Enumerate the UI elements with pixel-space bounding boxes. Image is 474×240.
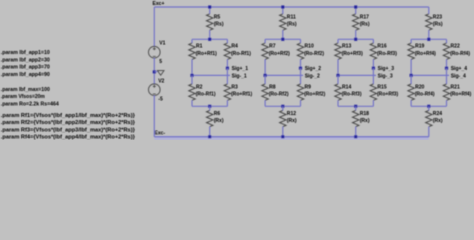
wire R15 to bottom bar	[372, 100, 374, 106]
resistor R2 (Ro-Rf1)	[189, 84, 195, 100]
wire left mid node to R2	[191, 75, 193, 84]
wire top bar to R16	[372, 39, 374, 43]
wire bottom bar to R18	[355, 106, 357, 110]
wire Exc- bottom rail	[154, 136, 429, 140]
wire left mid node to R20	[410, 75, 412, 84]
svg-text:(Ro-Rf4): (Ro-Rf4)	[450, 51, 470, 57]
svg-text:.param Ro=2.2k Rs=464: .param Ro=2.2k Rs=464	[1, 102, 59, 108]
wire right mid node to R21	[446, 68, 448, 84]
wire V2 down to Exc- rail	[153, 96, 155, 137]
wire right mid node to R3	[226, 68, 228, 84]
wire R16 to right mid node	[372, 59, 374, 68]
svg-text:Sig-_3: Sig-_3	[378, 74, 393, 80]
wire R20 to bottom bar	[410, 100, 412, 106]
wire R11 to bridge top node	[282, 30, 284, 39]
wire R23 to bridge top node	[428, 30, 430, 39]
svg-text:(Rx): (Rx)	[433, 118, 443, 124]
wire R14 to bottom bar	[337, 100, 339, 106]
svg-text:(Rs): (Rs)	[360, 22, 370, 28]
svg-text:.param lbf_app3=70: .param lbf_app3=70	[1, 65, 50, 71]
resistor R7 (Ro+Rf2)	[262, 43, 268, 59]
wire Exc+ rail down to V1	[153, 7, 155, 46]
svg-text:(Ro-Rf3): (Ro-Rf3)	[342, 92, 362, 98]
resistor R19 (Ro+Rf4)	[408, 43, 414, 59]
svg-text:(Ro-Rf3): (Ro-Rf3)	[377, 51, 397, 57]
node bridge top junction	[281, 38, 284, 41]
wire top bar to R22	[446, 39, 448, 43]
resistor R16 (Ro-Rf3)	[370, 43, 376, 59]
wire right mid node to R9	[300, 68, 302, 84]
svg-text:(Rx): (Rx)	[287, 118, 297, 124]
svg-text:(Ro+Rf2): (Ro+Rf2)	[304, 92, 325, 98]
svg-text:(Ro-Rf1): (Ro-Rf1)	[196, 92, 216, 98]
wire R2 to bottom bar	[191, 100, 193, 106]
node left mid junction	[264, 74, 267, 77]
svg-text:(Ro-Rf4): (Ro-Rf4)	[415, 92, 435, 98]
wire bridge bottom bar	[192, 105, 227, 107]
svg-text:R6: R6	[214, 111, 221, 117]
svg-text:5: 5	[159, 59, 162, 65]
svg-text:R15: R15	[377, 84, 386, 90]
svg-text:Sig-_1: Sig-_1	[232, 74, 247, 80]
node junction V1/V2 midpoint	[153, 70, 156, 73]
wire R9 to bottom bar	[300, 100, 302, 106]
svg-text:.param Rf1={Vfsos*(lbf_app1/lb: .param Rf1={Vfsos*(lbf_app1/lbf_max)*(Ro…	[1, 113, 135, 119]
node bridge top junction	[427, 38, 430, 41]
svg-text:Sig+_2: Sig+_2	[305, 66, 322, 72]
node Exc+ rail junction	[354, 5, 357, 8]
svg-text:Exc-: Exc-	[155, 131, 166, 137]
svg-text:R20: R20	[415, 84, 424, 90]
node Exc+ rail junction	[208, 5, 211, 8]
wire R7 to left mid node	[264, 59, 266, 75]
svg-text:(Rs): (Rs)	[214, 22, 224, 28]
resistor R23 (Rs)	[426, 14, 432, 30]
svg-text:R24: R24	[433, 111, 442, 117]
svg-text:(Rs): (Rs)	[287, 22, 297, 28]
node bridge top junction	[208, 38, 211, 41]
wire top bar to R19	[410, 39, 412, 43]
wire R19 to left mid node	[410, 59, 412, 75]
resistor R17 (Rs)	[353, 14, 359, 30]
wire R12 to Exc- rail	[282, 127, 284, 137]
node Sig+_1 junction	[226, 67, 229, 70]
wire R3 to bottom bar	[226, 100, 228, 106]
svg-text:.param lbf_max=100: .param lbf_max=100	[1, 87, 50, 93]
svg-text:R4: R4	[231, 44, 238, 50]
wire bridge bottom bar	[265, 105, 300, 107]
wire bridge top bar	[411, 38, 446, 40]
svg-text:Sig+_1: Sig+_1	[232, 66, 249, 72]
svg-text:.param Rf3={Vfsos*(lbf_app3/lb: .param Rf3={Vfsos*(lbf_app3/lbf_max)*(Ro…	[1, 127, 135, 133]
svg-text:(Ro+Rf1): (Ro+Rf1)	[231, 92, 252, 98]
svg-text:(Ro-Rf2): (Ro-Rf2)	[304, 51, 324, 57]
wire Exc+ rail to R11	[282, 7, 284, 14]
ground	[154, 71, 157, 73]
svg-text:R17: R17	[360, 14, 369, 20]
svg-text:V1: V1	[159, 41, 165, 47]
wire Sig-_4 from left mid node	[411, 74, 449, 76]
svg-text:(Ro-Rf1): (Ro-Rf1)	[231, 51, 251, 57]
svg-text:Sig+_4: Sig+_4	[451, 66, 468, 72]
svg-text:(Ro+Rf2): (Ro+Rf2)	[269, 51, 290, 57]
svg-text:R18: R18	[360, 111, 369, 117]
resistor R8 (Ro-Rf2)	[262, 84, 268, 100]
svg-text:R22: R22	[451, 44, 460, 50]
wire R6 to Exc- rail	[209, 127, 211, 137]
wire Sig-_1 from left mid node	[192, 74, 230, 76]
resistor R13 (Ro+Rf3)	[335, 43, 341, 59]
resistor R12 (Rx)	[280, 110, 286, 126]
node bridge top junction	[354, 38, 357, 41]
node left mid junction	[336, 74, 339, 77]
wire R10 to right mid node	[300, 59, 302, 68]
wire top bar to R10	[300, 39, 302, 43]
wire Sig-_2 from left mid node	[265, 74, 303, 76]
wire R22 to right mid node	[446, 59, 448, 68]
svg-text:(Rx): (Rx)	[360, 118, 370, 124]
wire R18 to Exc- rail	[355, 127, 357, 137]
wire V1 to V2	[153, 58, 155, 84]
resistor R22 (Ro-Rf4)	[443, 43, 449, 59]
wire bridge top bar	[192, 38, 227, 40]
svg-text:(Ro+Rf3): (Ro+Rf3)	[342, 51, 363, 57]
svg-text:(Ro+Rf3): (Ro+Rf3)	[377, 92, 398, 98]
node left mid junction	[190, 74, 193, 77]
wire bottom bar to R12	[282, 106, 284, 110]
svg-text:R23: R23	[433, 14, 442, 20]
voltage source V2	[149, 84, 161, 96]
node bridge bottom junction	[427, 105, 430, 108]
wire top bar to R1	[191, 39, 193, 43]
wire Exc+ rail to R5	[209, 7, 211, 14]
svg-text:R10: R10	[305, 44, 314, 50]
resistor R9 (Ro+Rf2)	[297, 84, 303, 100]
svg-text:(Rs): (Rs)	[433, 22, 443, 28]
svg-text:R3: R3	[231, 84, 238, 90]
svg-text:R5: R5	[214, 14, 221, 20]
resistor R4 (Ro-Rf1)	[224, 43, 230, 59]
wire R8 to bottom bar	[264, 100, 266, 106]
svg-text:.param Rf2={Vfsos*(lbf_app2/lb: .param Rf2={Vfsos*(lbf_app2/lbf_max)*(Ro…	[1, 120, 135, 126]
svg-text:(Rx): (Rx)	[214, 118, 224, 124]
node Sig+_3 junction	[372, 67, 375, 70]
wire R21 to bottom bar	[446, 100, 448, 106]
node Exc- rail junction	[281, 135, 284, 138]
svg-text:Sig-_2: Sig-_2	[305, 74, 320, 80]
wire R24 to Exc- rail	[428, 127, 430, 137]
wire right mid node to R15	[372, 68, 374, 84]
wire bottom bar to R24	[428, 106, 430, 110]
wire left mid node to R8	[264, 75, 266, 84]
svg-text:R13: R13	[342, 44, 351, 50]
svg-text:R1: R1	[196, 44, 203, 50]
resistor R21 (Ro+Rf4)	[443, 84, 449, 100]
wire R4 to right mid node	[226, 59, 228, 68]
resistor R20 (Ro-Rf4)	[408, 84, 414, 100]
wire Exc+ top rail	[154, 6, 429, 8]
wire left mid node to R14	[337, 75, 339, 84]
svg-text:R8: R8	[269, 84, 276, 90]
svg-text:Sig+_3: Sig+_3	[378, 66, 395, 72]
wire bridge top bar	[338, 38, 373, 40]
resistor R5 (Rs)	[207, 14, 213, 30]
svg-text:V2: V2	[158, 79, 164, 85]
svg-text:.param lbf_app2=30: .param lbf_app2=30	[1, 57, 50, 63]
node Exc- rail junction	[208, 135, 211, 138]
node Sig+_2 junction	[299, 67, 302, 70]
wire R5 to bridge top node	[209, 30, 211, 39]
resistor R14 (Ro-Rf3)	[335, 84, 341, 100]
wire top bar to R7	[264, 39, 266, 43]
resistor R15 (Ro+Rf3)	[370, 84, 376, 100]
resistor R24 (Rx)	[426, 110, 432, 126]
wire Sig-_3 from left mid node	[338, 74, 376, 76]
resistor R11 (Rs)	[280, 14, 286, 30]
voltage source V1	[149, 46, 161, 58]
resistor R3 (Ro+Rf1)	[224, 84, 230, 100]
svg-text:(Ro+Rf4): (Ro+Rf4)	[415, 51, 436, 57]
wire top bar to R4	[226, 39, 228, 43]
svg-text:.param lbf_app1=10: .param lbf_app1=10	[1, 50, 50, 56]
node bridge bottom junction	[208, 105, 211, 108]
wire Exc+ rail to R17	[355, 7, 357, 14]
wire bridge bottom bar	[338, 105, 373, 107]
svg-text:R21: R21	[451, 84, 460, 90]
wire top bar to R13	[337, 39, 339, 43]
wire R17 to bridge top node	[355, 30, 357, 39]
svg-text:.param lbf_app4=90: .param lbf_app4=90	[1, 72, 50, 78]
svg-text:.param Vfsos=20m: .param Vfsos=20m	[1, 94, 45, 100]
resistor R10 (Ro-Rf2)	[297, 43, 303, 59]
node Exc+ rail junction	[281, 5, 284, 8]
svg-text:(Ro+Rf1): (Ro+Rf1)	[196, 51, 217, 57]
svg-text:R2: R2	[196, 84, 203, 90]
resistor R18 (Rx)	[353, 110, 359, 126]
svg-text:R14: R14	[342, 84, 351, 90]
svg-text:R12: R12	[287, 111, 296, 117]
svg-text:R19: R19	[415, 44, 424, 50]
svg-text:R7: R7	[269, 44, 276, 50]
svg-text:.param Rf4={Vfsos*(lbf_app4/lb: .param Rf4={Vfsos*(lbf_app4/lbf_max)*(Ro…	[1, 135, 135, 140]
svg-text:R16: R16	[377, 44, 386, 50]
svg-text:(Ro+Rf4): (Ro+Rf4)	[450, 92, 471, 98]
svg-text:R11: R11	[287, 14, 296, 20]
svg-text:R9: R9	[305, 84, 312, 90]
wire R1 to left mid node	[191, 59, 193, 75]
node left mid junction	[410, 74, 413, 77]
resistor R1 (Ro+Rf1)	[189, 43, 195, 59]
node bridge bottom junction	[281, 105, 284, 108]
wire bottom bar to R6	[209, 106, 211, 110]
node Exc- rail junction	[354, 135, 357, 138]
wire Exc+ rail to R23	[428, 7, 430, 14]
wire bridge bottom bar	[411, 105, 446, 107]
svg-text:Sig-_4: Sig-_4	[451, 74, 466, 80]
resistor R6 (Rx)	[207, 110, 213, 126]
wire bridge top bar	[265, 38, 300, 40]
svg-text:(Ro-Rf2): (Ro-Rf2)	[269, 92, 289, 98]
node bridge bottom junction	[354, 105, 357, 108]
node Sig+_4 junction	[445, 67, 448, 70]
svg-text:Exc+: Exc+	[153, 1, 165, 7]
svg-text:-5: -5	[158, 97, 163, 103]
wire R13 to left mid node	[337, 59, 339, 75]
